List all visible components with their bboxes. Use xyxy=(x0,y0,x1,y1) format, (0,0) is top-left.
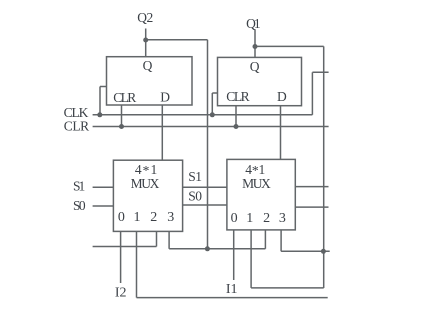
wire CLR line xyxy=(93,126,329,128)
svg-text:1: 1 xyxy=(134,210,141,225)
flip-flop U1 box xyxy=(107,57,193,105)
wire mux U4 pin2 vertical xyxy=(264,230,266,249)
svg-text:Q: Q xyxy=(143,58,153,73)
mux U3 box xyxy=(113,160,182,231)
wire Q2 feedback horizontal xyxy=(146,39,208,41)
wire S0 right stub xyxy=(295,206,328,208)
wire Q1 stem xyxy=(254,30,256,58)
svg-text:Q1: Q1 xyxy=(246,16,261,31)
svg-text:0: 0 xyxy=(118,210,125,225)
svg-text:MUX: MUX xyxy=(131,176,160,191)
svg-text:MUX: MUX xyxy=(242,176,271,191)
wire Q2 feedback vertical xyxy=(207,40,209,249)
wire CLK riser top horizontal xyxy=(312,71,328,73)
junction dot CLK U1 xyxy=(97,112,102,117)
wire U2 CLR pin xyxy=(235,106,237,127)
wire right bus vertical xyxy=(323,46,325,288)
wire U2 clock notch horizontal xyxy=(212,92,217,94)
wire Q2 stem xyxy=(145,29,147,57)
svg-text:CLR: CLR xyxy=(64,118,89,133)
mux U4 box xyxy=(227,159,295,230)
wire U4 pin3 to right bus horizontal xyxy=(281,250,330,252)
svg-text:3: 3 xyxy=(167,210,174,225)
wire U1 clock notch vertical xyxy=(99,87,101,115)
svg-text:Q2: Q2 xyxy=(137,10,153,25)
svg-text:S0: S0 xyxy=(73,198,86,213)
wire U1 clock notch horizontal xyxy=(100,86,107,88)
wire U1 D pin to mux U3 xyxy=(161,105,163,160)
wire mux U4 pin0 xyxy=(233,230,235,280)
svg-text:Q: Q xyxy=(250,59,260,74)
wire U2 clock notch vertical xyxy=(211,93,213,115)
flip-flop U2 box xyxy=(218,57,302,105)
svg-text:D: D xyxy=(160,89,170,104)
wire mux U4 pin3 vertical xyxy=(280,230,282,251)
junction dot Q2 xyxy=(143,38,148,43)
wire mux U3 pin2 xyxy=(156,231,158,246)
svg-text:1: 1 xyxy=(246,211,253,226)
svg-text:D: D xyxy=(277,89,287,104)
svg-text:S1: S1 xyxy=(73,179,85,194)
wire Q1 feedback horizontal xyxy=(255,45,324,47)
svg-text:0: 0 xyxy=(231,211,238,226)
junction dot Q1 xyxy=(253,44,258,49)
junction dot CLK U2 xyxy=(210,112,215,117)
wire S0 middle xyxy=(183,204,227,206)
wire S1 left stub xyxy=(93,186,114,188)
wire CLK line xyxy=(93,114,313,116)
svg-text:CLR: CLR xyxy=(226,89,249,104)
wire mux U3 pin0 xyxy=(120,231,122,283)
junction dot CLR U2 xyxy=(234,124,239,129)
svg-text:2: 2 xyxy=(150,210,157,225)
junction dot right bus xyxy=(321,249,326,254)
svg-text:S1: S1 xyxy=(188,169,202,184)
wire mux U3 pin1 bottom horizontal xyxy=(137,297,328,299)
wire left input stub to U3 pin2 xyxy=(93,246,157,248)
svg-text:I2: I2 xyxy=(115,286,127,301)
svg-text:2: 2 xyxy=(263,211,270,226)
wire U3 pin3 to U4 pin2 horizontal xyxy=(169,248,265,250)
junction dot CLR U1 xyxy=(119,124,124,129)
svg-text:CLR: CLR xyxy=(113,90,136,105)
svg-text:S0: S0 xyxy=(188,189,202,204)
wire mux U3 pin3 vertical xyxy=(168,231,170,248)
wire S1 middle xyxy=(183,186,227,188)
svg-text:3: 3 xyxy=(279,211,286,226)
junction dot Q2 to pin3 line xyxy=(205,246,210,251)
wire S1 right stub xyxy=(295,186,328,188)
wire U1 CLR pin xyxy=(121,105,123,127)
wire mux U3 pin1 vertical xyxy=(136,231,138,297)
wire U2 D pin to mux U4 xyxy=(280,106,282,160)
wire S0 left stub xyxy=(93,205,114,207)
wire CLK riser vertical xyxy=(311,72,313,115)
svg-text:I1: I1 xyxy=(226,282,238,297)
wire mux U4 pin1 bottom horizontal xyxy=(251,287,324,289)
wire mux U4 pin1 vertical xyxy=(250,230,252,288)
